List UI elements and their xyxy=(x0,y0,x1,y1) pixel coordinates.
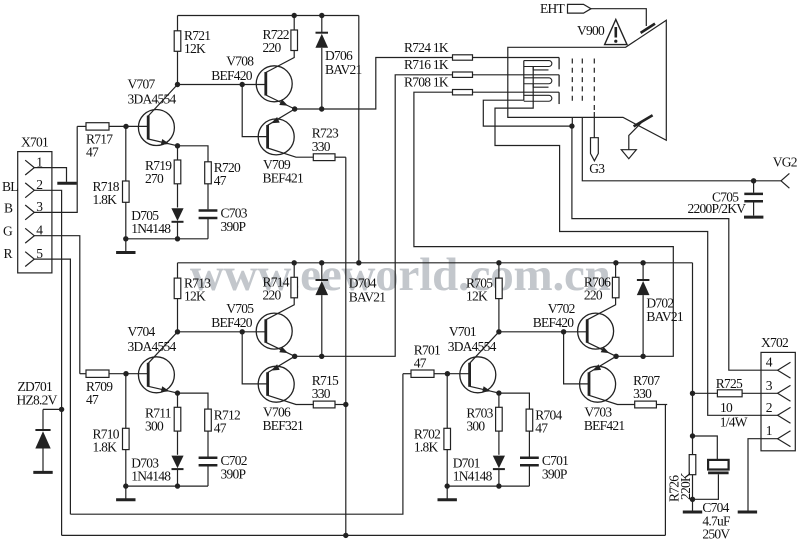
svg-text:BEF321: BEF321 xyxy=(263,418,304,433)
svg-text:220: 220 xyxy=(263,40,282,55)
svg-text:V704: V704 xyxy=(128,324,156,339)
svg-text:V701: V701 xyxy=(449,324,476,339)
wire emitter-network ground bus 2 xyxy=(126,485,208,487)
svg-text:3DA4554: 3DA4554 xyxy=(128,339,177,354)
svg-text:VG2: VG2 xyxy=(773,154,797,169)
svg-text:V702: V702 xyxy=(548,301,575,316)
diode D706 (BAV21) xyxy=(321,16,323,34)
svg-text:V707: V707 xyxy=(128,77,156,92)
svg-text:330: 330 xyxy=(312,139,331,154)
transistor V703 (BEF421) xyxy=(580,366,616,402)
transistor V708 (BEF420) xyxy=(256,66,292,102)
resistor R711 (300) xyxy=(177,393,179,407)
node rail junctions ch1 xyxy=(292,13,297,18)
svg-text:250V: 250V xyxy=(702,526,730,541)
wire X701 pin1 to ground xyxy=(34,168,66,182)
resistor R710 (1.8K) xyxy=(125,374,127,429)
node C704 junction xyxy=(690,433,695,438)
svg-text:10: 10 xyxy=(720,400,733,415)
wire R input (pin5) xyxy=(34,259,70,514)
svg-text:12K: 12K xyxy=(184,41,206,56)
svg-text:EHT: EHT xyxy=(540,1,565,16)
node rail junctions main xyxy=(292,260,297,265)
node collector junction 2 xyxy=(175,329,180,334)
svg-text:300: 300 xyxy=(466,419,485,434)
node emitter junction 3 xyxy=(496,390,501,395)
svg-text:G3: G3 xyxy=(589,161,605,176)
svg-text:47: 47 xyxy=(414,356,427,371)
node R725 junction xyxy=(690,391,695,396)
svg-text:X701: X701 xyxy=(21,134,48,149)
svg-text:BAV21: BAV21 xyxy=(646,309,683,324)
svg-text:330: 330 xyxy=(312,386,331,401)
svg-text:BEF421: BEF421 xyxy=(584,418,625,433)
svg-text:1.8K: 1.8K xyxy=(93,440,118,455)
node output junction 2 xyxy=(292,354,297,359)
svg-text:220: 220 xyxy=(263,288,282,303)
svg-text:390P: 390P xyxy=(221,219,246,234)
svg-text:BEF420: BEF420 xyxy=(533,315,575,330)
resistor R715 (330) xyxy=(313,401,335,408)
svg-text:220: 220 xyxy=(584,288,603,303)
ground C705 xyxy=(744,216,763,219)
svg-text:390P: 390P xyxy=(221,466,246,481)
wire rail link down xyxy=(358,16,360,263)
heater loop gun 2 xyxy=(524,78,552,84)
transistor V701 (3DA4554) xyxy=(460,357,496,393)
resistor R718 (1.8K) xyxy=(125,126,127,181)
svg-text:R716 1K: R716 1K xyxy=(404,57,449,72)
svg-text:12K: 12K xyxy=(466,288,488,303)
node emitter junction 1 xyxy=(175,143,180,148)
pin 2 X702 xyxy=(778,407,791,423)
node output junction 3 xyxy=(613,354,618,359)
svg-text:BEF421: BEF421 xyxy=(263,171,304,186)
resistor R714 (220) xyxy=(293,263,295,278)
capacitor C701 (390P) xyxy=(520,457,539,460)
svg-text:300: 300 xyxy=(145,419,164,434)
svg-text:2200P/2KV: 2200P/2KV xyxy=(688,201,747,216)
node base junction 3 xyxy=(561,329,566,334)
grid G1 dashed xyxy=(571,59,573,106)
transistor V705 (BEF420) xyxy=(256,313,292,349)
wire BL line (pin2) xyxy=(34,190,61,535)
svg-text:1: 1 xyxy=(766,423,772,438)
node collector junction 1 xyxy=(175,82,180,87)
node input junction 3 xyxy=(445,371,450,376)
connector X702 xyxy=(761,352,795,450)
wire G1 to X702 pin4 xyxy=(572,126,778,370)
wire rail to R725 column xyxy=(692,263,694,455)
wire DAG to ground xyxy=(629,121,644,150)
capacitor C705 (2200P/2KV) xyxy=(753,181,755,193)
node base junction 2 xyxy=(240,329,245,334)
wire emitter-network ground bus 1 xyxy=(126,238,208,240)
pin 3 X702 xyxy=(778,385,791,401)
terminal VG2 xyxy=(781,173,789,180)
ground 2 xyxy=(125,486,127,499)
svg-text:1N4148: 1N4148 xyxy=(453,469,493,484)
svg-text:R725: R725 xyxy=(716,376,743,391)
wire ch3 output to R708 xyxy=(414,92,673,356)
pin 5 X701 xyxy=(25,252,34,267)
resistor R706 (220) xyxy=(615,263,617,278)
svg-text:1N4148: 1N4148 xyxy=(131,469,171,484)
node emitter junction 2 xyxy=(175,390,180,395)
svg-text:V900: V900 xyxy=(577,23,605,38)
node VG2 junction xyxy=(751,178,756,183)
node input junction 1 xyxy=(123,124,128,129)
svg-text:220K: 220K xyxy=(678,472,693,500)
ground DAG (triangle) xyxy=(621,150,636,159)
heater loop gun 1 xyxy=(524,61,552,67)
resistor R719 (270) xyxy=(177,146,179,160)
wire EHT to anode xyxy=(591,9,646,26)
resistor R705 (12K) xyxy=(498,299,500,332)
diode D702 (BAV21) xyxy=(642,263,644,281)
svg-text:B: B xyxy=(4,201,13,216)
svg-text:47: 47 xyxy=(535,421,548,436)
node output junction 1 xyxy=(292,106,297,111)
svg-text:V708: V708 xyxy=(226,54,254,69)
cathode gun 2 xyxy=(558,75,560,87)
svg-text:R724 1K: R724 1K xyxy=(404,40,449,55)
svg-text:47: 47 xyxy=(86,145,99,160)
transistor V704 (3DA4554) xyxy=(138,357,174,393)
svg-text:BAV21: BAV21 xyxy=(325,62,362,77)
resistor R723 (330) xyxy=(313,154,335,161)
wire emitter-network ground bus 3 xyxy=(447,485,529,487)
svg-text:1N4148: 1N4148 xyxy=(131,221,171,236)
svg-text:1.8K: 1.8K xyxy=(414,440,439,455)
pin 4 X701 xyxy=(25,228,34,243)
svg-text:R: R xyxy=(4,246,13,261)
svg-text:BAV21: BAV21 xyxy=(349,289,386,304)
svg-text:www.eeworld.com.cn: www.eeworld.com.cn xyxy=(190,249,611,301)
resistor R703 (300) xyxy=(498,393,500,407)
resistor R721 (12K) xyxy=(177,51,179,84)
pin 1 X702 xyxy=(778,431,791,447)
resistor R708 (1K) xyxy=(453,90,473,95)
resistor R726 (220K) xyxy=(689,455,696,475)
svg-text:47: 47 xyxy=(214,173,227,188)
ground 3 xyxy=(446,486,448,499)
node heater junction xyxy=(569,123,574,128)
svg-text:G: G xyxy=(3,224,13,239)
svg-text:BEF420: BEF420 xyxy=(211,68,253,83)
node clamp rail junction xyxy=(343,533,348,538)
wire heater chain left xyxy=(483,61,572,127)
svg-text:3: 3 xyxy=(766,378,773,393)
node input junction 2 xyxy=(123,371,128,376)
pin 1 X701 xyxy=(25,160,34,175)
svg-text:3DA4554: 3DA4554 xyxy=(128,92,177,107)
resistor R720 (47) xyxy=(205,162,212,184)
svg-text:R708 1K: R708 1K xyxy=(404,75,449,90)
grid G2 dashed xyxy=(581,59,583,106)
pin 2 X701 xyxy=(25,183,34,198)
wire ch1 output to R724 xyxy=(295,58,453,110)
resistor R713 (12K) xyxy=(177,299,179,332)
heater loop gun 3 xyxy=(524,95,552,101)
svg-text:47: 47 xyxy=(214,421,227,436)
EHT anode contact xyxy=(641,24,655,33)
wire bottom clamp rail xyxy=(62,534,666,536)
wire heater chain bottom xyxy=(495,67,778,416)
cathode gun 1 xyxy=(558,58,560,70)
resistor R709 (47) xyxy=(80,373,86,375)
pin 3 X701 xyxy=(25,205,34,220)
resistor R707 (330) xyxy=(635,401,657,408)
capacitor C702 (390P) xyxy=(199,457,218,460)
ground ZD701 xyxy=(33,471,52,474)
resistor R722 (220) xyxy=(293,16,295,31)
diode D703 (1N4148) xyxy=(171,456,183,469)
zener ZD701 (HZ8.2V) xyxy=(43,408,62,410)
grid G4 dashed xyxy=(593,59,595,113)
svg-text:1/4W: 1/4W xyxy=(720,414,748,429)
ground 1 xyxy=(125,239,127,252)
svg-text:3DA4554: 3DA4554 xyxy=(448,339,497,354)
wire R723/R715 output column xyxy=(345,157,347,535)
resistor R712 (47) xyxy=(205,409,212,431)
svg-text:4: 4 xyxy=(766,355,773,370)
diode D704 (BAV21) xyxy=(321,263,323,281)
CRT V900 funnel xyxy=(508,20,667,140)
svg-text:2: 2 xyxy=(766,400,772,415)
warning triangle xyxy=(605,20,627,45)
resistor R702 (1.8K) xyxy=(446,374,448,429)
svg-text:V705: V705 xyxy=(226,301,254,316)
capacitor C704 (4.7uF 250V) xyxy=(693,436,718,460)
pin 4 X702 xyxy=(778,362,791,378)
diode D701 (1N4148) xyxy=(493,456,505,469)
node collector junction 3 xyxy=(496,329,501,334)
transistor V707 (3DA4554) xyxy=(138,110,174,146)
transistor V706 (BEF321) xyxy=(258,366,294,402)
node R715 output junction xyxy=(343,402,348,407)
node base junction 1 xyxy=(240,82,245,87)
resistor R724 (1K) xyxy=(453,55,473,60)
svg-text:HZ8.2V: HZ8.2V xyxy=(17,392,58,407)
ground R726/C704 xyxy=(692,499,694,510)
svg-text:BEF420: BEF420 xyxy=(211,315,253,330)
svg-text:X702: X702 xyxy=(761,335,788,350)
svg-text:12K: 12K xyxy=(184,288,206,303)
resistor R725 xyxy=(693,392,718,394)
resistor R701 (47) xyxy=(403,373,411,375)
connector X701 xyxy=(18,152,52,273)
svg-text:47: 47 xyxy=(86,392,99,407)
wire +220V main rail xyxy=(178,262,693,264)
wire R input bottom rail xyxy=(70,374,403,515)
resistor R717 (47) xyxy=(77,125,86,127)
svg-text:270: 270 xyxy=(145,171,164,186)
transistor V702 (BEF420) xyxy=(578,313,614,349)
diode D705 (1N4148) xyxy=(171,208,183,221)
resistor R716 (1K) xyxy=(453,72,473,77)
wire X702 pin1 to ground xyxy=(748,439,778,511)
svg-text:1.8K: 1.8K xyxy=(93,192,118,207)
wire R707 output column xyxy=(664,405,666,536)
ground X701 pin1 xyxy=(57,182,76,185)
transistor V709 (BEF421) xyxy=(258,119,294,155)
wire G input (pin4) xyxy=(34,236,80,374)
electrode G3 xyxy=(593,112,595,138)
node R726 bottom junction xyxy=(690,497,695,502)
heater link foot 1 xyxy=(533,67,548,70)
capacitor C703 (390P) xyxy=(199,209,218,212)
cathode gun 3 xyxy=(558,92,560,104)
resistor R704 (47) xyxy=(526,409,533,431)
ground X702 pin1 xyxy=(738,511,757,514)
wire G2 to VG2 xyxy=(582,117,781,180)
svg-text:390P: 390P xyxy=(542,466,567,481)
wire +220V top rail channel1 xyxy=(178,15,359,17)
wire B input (pin3) xyxy=(34,126,77,212)
svg-text:BL: BL xyxy=(2,179,18,194)
DAG coating stroke xyxy=(634,115,653,126)
wire ch2 output to R716 xyxy=(295,75,453,357)
svg-text:330: 330 xyxy=(633,386,652,401)
heater link foot 2 xyxy=(533,84,548,87)
